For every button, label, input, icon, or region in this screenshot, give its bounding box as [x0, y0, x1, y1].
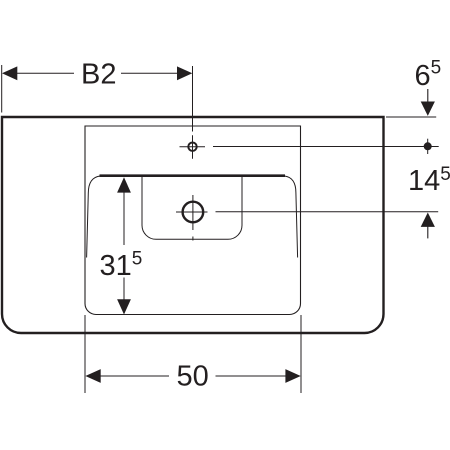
svg-text:145: 145 — [408, 164, 450, 197]
svg-text:65: 65 — [415, 58, 442, 93]
svg-text:50: 50 — [177, 361, 209, 393]
svg-text:B2: B2 — [81, 59, 116, 91]
svg-text:315: 315 — [100, 249, 143, 283]
